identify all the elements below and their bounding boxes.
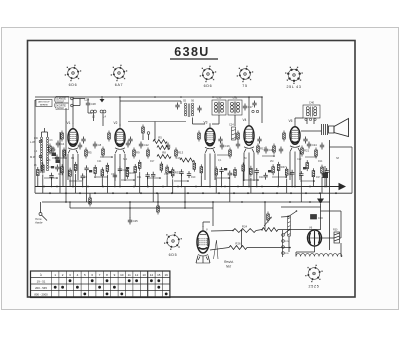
wire bottom links to buses <box>212 202 214 226</box>
tube socket 25L6/43 (output) <box>285 67 303 89</box>
svg-text:13: 13 <box>142 273 146 277</box>
wire mid horizontal y121 <box>128 121 186 123</box>
speaker voice coil <box>329 126 335 133</box>
zigzag resistor R6 mid <box>157 146 170 150</box>
tube socket 6A7 (converter) <box>111 65 128 87</box>
capacitor C14 <box>166 143 170 150</box>
junction dots on buses <box>43 186 45 188</box>
capacitor C30 <box>311 215 324 221</box>
resistor R47 <box>277 162 286 173</box>
volume potentiometer <box>267 212 270 223</box>
resistor R11 <box>147 148 150 159</box>
resistor R5 <box>85 148 92 159</box>
resistor R42 <box>242 163 245 174</box>
wire V5 to transformer <box>301 130 322 132</box>
capacitor C54 <box>325 168 329 175</box>
svg-text:C15: C15 <box>164 173 169 176</box>
resistor R22 <box>101 167 104 178</box>
svg-text:800 - 2000: 800 - 2000 <box>34 293 48 297</box>
capacitor C14 <box>49 173 53 180</box>
resistor R15 <box>229 148 232 159</box>
wire V6 top cap <box>202 222 204 227</box>
title 638U <box>170 45 218 59</box>
padding condenser C24 (tall box) <box>229 124 236 141</box>
svg-text:C4: C4 <box>61 142 65 146</box>
resistor R21 <box>301 146 310 157</box>
wire left feed bus <box>34 100 36 193</box>
svg-text:R14: R14 <box>318 160 323 163</box>
resistor R16 <box>61 164 64 175</box>
svg-text:R26: R26 <box>235 242 241 246</box>
capacitor C15 <box>55 165 59 172</box>
zigzag resistor R25 bottom <box>262 228 278 232</box>
svg-text:GOLF: GOLF <box>57 99 64 103</box>
capacitor C25 <box>118 166 128 173</box>
tube socket 6D6 (IF) <box>200 66 217 88</box>
resistor R33 <box>171 167 180 178</box>
wire antenna to C28 <box>73 98 85 100</box>
terminal circles above V4 <box>252 110 254 112</box>
wire L2 down <box>93 113 95 121</box>
svg-text:M.W: M.W <box>30 155 36 159</box>
earth terminal Terra/Aarde <box>39 213 42 216</box>
svg-text:12: 12 <box>135 273 139 277</box>
capacitor C26 <box>320 143 324 150</box>
dark blob component on right rail <box>323 173 329 179</box>
capacitor C17A <box>252 101 256 108</box>
tube socket 6D5 (bottom) <box>164 232 182 257</box>
svg-text:C28: C28 <box>91 102 97 106</box>
power wiring <box>281 206 321 208</box>
svg-text:R9: R9 <box>136 151 140 155</box>
wire network to V5 <box>306 118 308 124</box>
svg-text:Aarde: Aarde <box>34 221 43 225</box>
resistor R53 <box>321 165 324 176</box>
tone network box <box>303 101 320 119</box>
ground (earth) symbol at antenna <box>100 99 105 102</box>
svg-text:R17: R17 <box>150 160 155 163</box>
capacitor C44 <box>255 168 259 175</box>
pointer arrow to resistance unit <box>214 240 219 259</box>
resistor R46 <box>272 164 275 175</box>
capacitor C24 <box>113 173 117 180</box>
zigzag resistor R26 bottom lower <box>229 242 247 250</box>
svg-text:638U: 638U <box>174 45 209 59</box>
capacitor C16 <box>220 143 230 150</box>
capacitor C28 <box>86 101 96 108</box>
trimmer C2 <box>55 155 59 162</box>
table dots row 3 <box>83 293 167 296</box>
zigzag resistor R9 mid <box>180 158 194 162</box>
resistor R23 <box>315 148 318 159</box>
resistor R31 <box>160 162 163 173</box>
bus wire AVC <box>42 201 330 203</box>
svg-text:200 - 545: 200 - 545 <box>35 286 47 290</box>
line cord resistance (wavy) <box>296 254 342 257</box>
small dark blobs (wound components) <box>51 166 54 168</box>
svg-text:R47: R47 <box>281 165 287 169</box>
schematic border frame <box>28 41 356 298</box>
resistor R12 <box>37 167 46 178</box>
svg-text:R21: R21 <box>259 176 264 179</box>
rectifier tube (bold circle) <box>308 230 322 246</box>
svg-text:L10: L10 <box>217 96 222 100</box>
wire top interconnect right <box>213 96 262 98</box>
capacitor C4 <box>56 141 65 148</box>
antenna coil L3 <box>46 137 48 171</box>
svg-text:C22: C22 <box>297 158 302 161</box>
capacitor C29 <box>145 172 149 179</box>
wave range labels LANGE GOLF / KORTE GOLF <box>55 96 69 110</box>
mains terminal strip <box>282 230 285 257</box>
wire left vertical x60 <box>59 132 61 193</box>
zigzag resistor R5 mid <box>153 136 167 144</box>
coil box L12 <box>228 96 242 116</box>
svg-text:2M: 2M <box>270 160 273 163</box>
svg-text:Nut: Nut <box>226 265 231 269</box>
cluster wires <box>142 136 144 141</box>
tube socket 25Z5 (bottom right) <box>305 265 322 289</box>
capacitor C49 <box>290 170 294 177</box>
svg-text:λ: λ <box>40 273 42 277</box>
svg-text:L4C: L4C <box>34 138 39 140</box>
bus wire B+ (with arrow) <box>35 186 339 188</box>
resistor R23 <box>106 163 109 174</box>
svg-text:C28: C28 <box>84 98 90 102</box>
cluster terminal circle <box>147 132 150 135</box>
short horizontal link wires in band <box>44 177 57 179</box>
capacitor C25 drop <box>129 202 131 218</box>
capacitor C20 <box>264 147 274 154</box>
trimmer C11 <box>175 103 179 110</box>
resistor R28 <box>138 160 141 171</box>
capacitor C30 <box>151 172 155 179</box>
capacitor C18 <box>236 142 240 149</box>
svg-text:6A7: 6A7 <box>115 83 124 87</box>
junction dots scattered <box>56 177 58 179</box>
tube socket 75 (detector) <box>237 66 254 88</box>
svg-text:R1: R1 <box>52 147 56 151</box>
svg-text:C12: C12 <box>144 143 150 147</box>
svg-text:L12: L12 <box>233 96 238 100</box>
svg-text:R5: R5 <box>88 151 92 155</box>
svg-text:R5: R5 <box>158 136 162 140</box>
cluster between V2 and T1: resistor <box>142 125 145 136</box>
tube V2 (6A7 converter) <box>114 121 126 153</box>
band/switch table grid <box>31 271 170 298</box>
svg-text:C24: C24 <box>312 143 318 147</box>
svg-text:6D5: 6D5 <box>169 253 178 257</box>
svg-text:C24: C24 <box>229 124 234 127</box>
svg-text:R13: R13 <box>178 151 184 155</box>
left coil value labels <box>34 138 53 169</box>
band terminal upper <box>39 140 42 143</box>
resistor R1 <box>49 144 56 155</box>
wire L10 down to V3 <box>218 115 220 124</box>
grid resistors flanking tubes <box>61 131 64 142</box>
table column numbers <box>54 273 168 277</box>
wire top interconnect left <box>35 96 262 98</box>
ballast resistor R30 hatched <box>333 229 340 244</box>
svg-text:R27: R27 <box>316 176 321 179</box>
trimmer C1 <box>51 147 55 154</box>
svg-text:C17: C17 <box>248 105 254 109</box>
wire left vertical x63 <box>62 150 64 187</box>
band terminal lower <box>39 155 42 158</box>
table dots row 2 <box>54 286 160 289</box>
table dots row 1 <box>69 279 161 282</box>
resistor R26 <box>126 168 135 179</box>
resistor R52 <box>312 168 315 179</box>
bus wire heater chain <box>35 192 352 194</box>
junction dots bottom section <box>232 230 234 232</box>
svg-text:R17: R17 <box>260 147 266 151</box>
wire earth to bus <box>40 202 42 213</box>
tube socket 6D6 (RF) <box>65 65 82 87</box>
oscillator coils L2 L4 <box>91 110 107 118</box>
resistor R21 <box>94 165 97 176</box>
svg-text:V1: V1 <box>67 121 71 125</box>
wire drops from tubes to buses <box>67 154 69 180</box>
svg-text:C21: C21 <box>97 160 102 163</box>
IF transformer T1 core <box>187 104 189 118</box>
resistor R36 <box>193 161 196 172</box>
svg-text:11: 11 <box>128 273 131 277</box>
output tube V6 (drawn large) <box>197 226 209 260</box>
svg-text:16: 16 <box>165 273 169 277</box>
svg-text:6D6: 6D6 <box>69 83 78 87</box>
wire drop x185 <box>184 187 186 209</box>
svg-text:V4: V4 <box>243 118 247 122</box>
capacitor C6 <box>78 143 82 150</box>
svg-text:6D6: 6D6 <box>204 84 213 88</box>
resistor R7 <box>102 147 105 158</box>
resistor R32 <box>166 165 169 176</box>
tube V5 (output) <box>289 119 301 151</box>
svg-text:R24: R24 <box>242 225 248 229</box>
svg-text:V6: V6 <box>309 226 313 230</box>
wire L12 down <box>234 115 236 126</box>
antenna terminal KW <box>71 104 74 107</box>
junction dots on top wire <box>119 96 121 98</box>
tiny value labels scattered in band <box>46 157 340 179</box>
wire V4 top to top bus <box>248 97 250 121</box>
zigzag resistor R8 mid <box>157 151 171 159</box>
svg-text:C18: C18 <box>176 157 181 160</box>
svg-text:V2: V2 <box>114 121 118 125</box>
resistor vertical tall (line ballast) <box>288 216 291 236</box>
svg-text:C13: C13 <box>46 159 51 162</box>
resistor R43 <box>250 166 253 177</box>
resistor R13 <box>175 148 184 159</box>
svg-text:C23: C23 <box>231 173 236 176</box>
resistor R13 <box>42 163 45 174</box>
capacitor C8 <box>93 142 102 149</box>
resistor R17 <box>69 168 72 179</box>
resistor R48 <box>285 167 288 178</box>
wire sub-bus y208 <box>70 207 213 209</box>
resistor R51 <box>306 160 309 171</box>
resistor R37 <box>200 164 203 175</box>
capacitor C12 <box>139 142 149 149</box>
padder blob 2 <box>56 160 61 164</box>
wire bottom lower link <box>247 247 290 249</box>
svg-text:R21: R21 <box>304 149 310 153</box>
resistor R17 <box>257 144 266 155</box>
capacitor C34 <box>179 169 183 176</box>
output transformer T3 <box>322 124 328 135</box>
svg-text:75: 75 <box>242 84 247 88</box>
svg-text:L.W: L.W <box>30 140 35 144</box>
speaker cone <box>334 119 349 137</box>
capacitor C24 <box>307 142 317 149</box>
resistor R38 <box>215 166 218 177</box>
capacitor C19 <box>81 173 85 180</box>
wire bottom row link <box>256 230 262 231</box>
tone network terminals <box>305 118 307 120</box>
resistor drop R20 <box>157 193 159 206</box>
svg-text:V5: V5 <box>289 119 293 123</box>
resistor R27 <box>134 164 137 175</box>
zigzag resistor R24 bottom <box>233 225 256 233</box>
resistor R13 hanging <box>89 193 91 198</box>
svg-text:15: 15 <box>157 273 161 277</box>
misc vertical wires band B to buses <box>37 178 39 187</box>
padder blob 1 <box>52 153 57 157</box>
svg-text:GOLF: GOLF <box>57 106 64 110</box>
arrow feed down to rectifier <box>317 199 324 205</box>
resistor R3 <box>63 148 66 159</box>
capacitor C17 <box>243 104 253 111</box>
bottom tube pin wires <box>196 256 198 264</box>
voltage selector arm <box>284 230 290 235</box>
capacitor C50 <box>299 171 303 178</box>
svg-text:C8: C8 <box>98 143 102 147</box>
IF transformer T1 primary coil <box>184 103 186 116</box>
wire V1 top to bus <box>72 97 74 124</box>
resistor R41 <box>234 167 237 178</box>
resistor R19 <box>273 144 276 155</box>
svg-text:R30: R30 <box>333 229 338 232</box>
svg-text:C40: C40 <box>309 101 315 105</box>
resistor R18 <box>74 162 77 173</box>
wire coil tops <box>41 132 43 137</box>
svg-text:BEREIK: BEREIK <box>40 105 49 107</box>
svg-text:C16: C16 <box>225 144 231 148</box>
svg-text:R19: R19 <box>191 176 196 179</box>
mains switch S <box>289 212 297 217</box>
wire top right link <box>330 146 353 148</box>
svg-text:10: 10 <box>120 273 124 277</box>
svg-text:C25: C25 <box>133 219 139 223</box>
wire x155 vertical <box>154 122 156 141</box>
right vertical wire to heater <box>351 147 353 193</box>
capacitor C40 <box>228 171 232 178</box>
svg-text:C20: C20 <box>269 148 275 152</box>
antenna terminal label box <box>36 100 52 107</box>
svg-text:25L 43: 25L 43 <box>286 85 301 89</box>
capacitor C45 <box>263 173 267 180</box>
wire top interconnect mid <box>120 100 181 102</box>
right vertical wire to power section <box>329 140 331 250</box>
tube V4 (75 detector) <box>243 118 255 152</box>
capacitor C22 <box>279 147 283 154</box>
wire L4 down <box>102 113 104 126</box>
capacitor C39 <box>219 167 223 174</box>
svg-text:Resist.: Resist. <box>224 260 234 264</box>
wire T1 to V3 <box>192 118 194 125</box>
wire from C28 down to tuning <box>87 108 89 114</box>
resistor R9 <box>133 148 140 159</box>
tube V1 (6D6 RF amp) <box>67 121 79 153</box>
tube V3 (6D6 IF amp) <box>204 121 216 153</box>
capacitor C35 <box>187 171 191 178</box>
svg-text:14: 14 <box>150 273 154 277</box>
capacitor C20 <box>84 165 88 172</box>
svg-text:25Z5: 25Z5 <box>309 285 320 289</box>
antenna terminal LW <box>71 97 74 100</box>
antenna coil L1 <box>40 137 42 171</box>
coil box L10 <box>212 96 226 116</box>
svg-text:R8: R8 <box>162 151 166 155</box>
IF transformer T1 secondary coil <box>191 103 193 116</box>
wire left vertical x66 <box>65 108 67 202</box>
capacitor C10 <box>126 141 130 148</box>
svg-text:ANT./GOLF: ANT./GOLF <box>38 101 50 104</box>
trimmer C12 <box>197 106 201 113</box>
svg-text:S12: S12 <box>123 158 128 161</box>
svg-text:19 - 51: 19 - 51 <box>37 280 46 284</box>
arrow head on B+ bus <box>339 183 347 190</box>
